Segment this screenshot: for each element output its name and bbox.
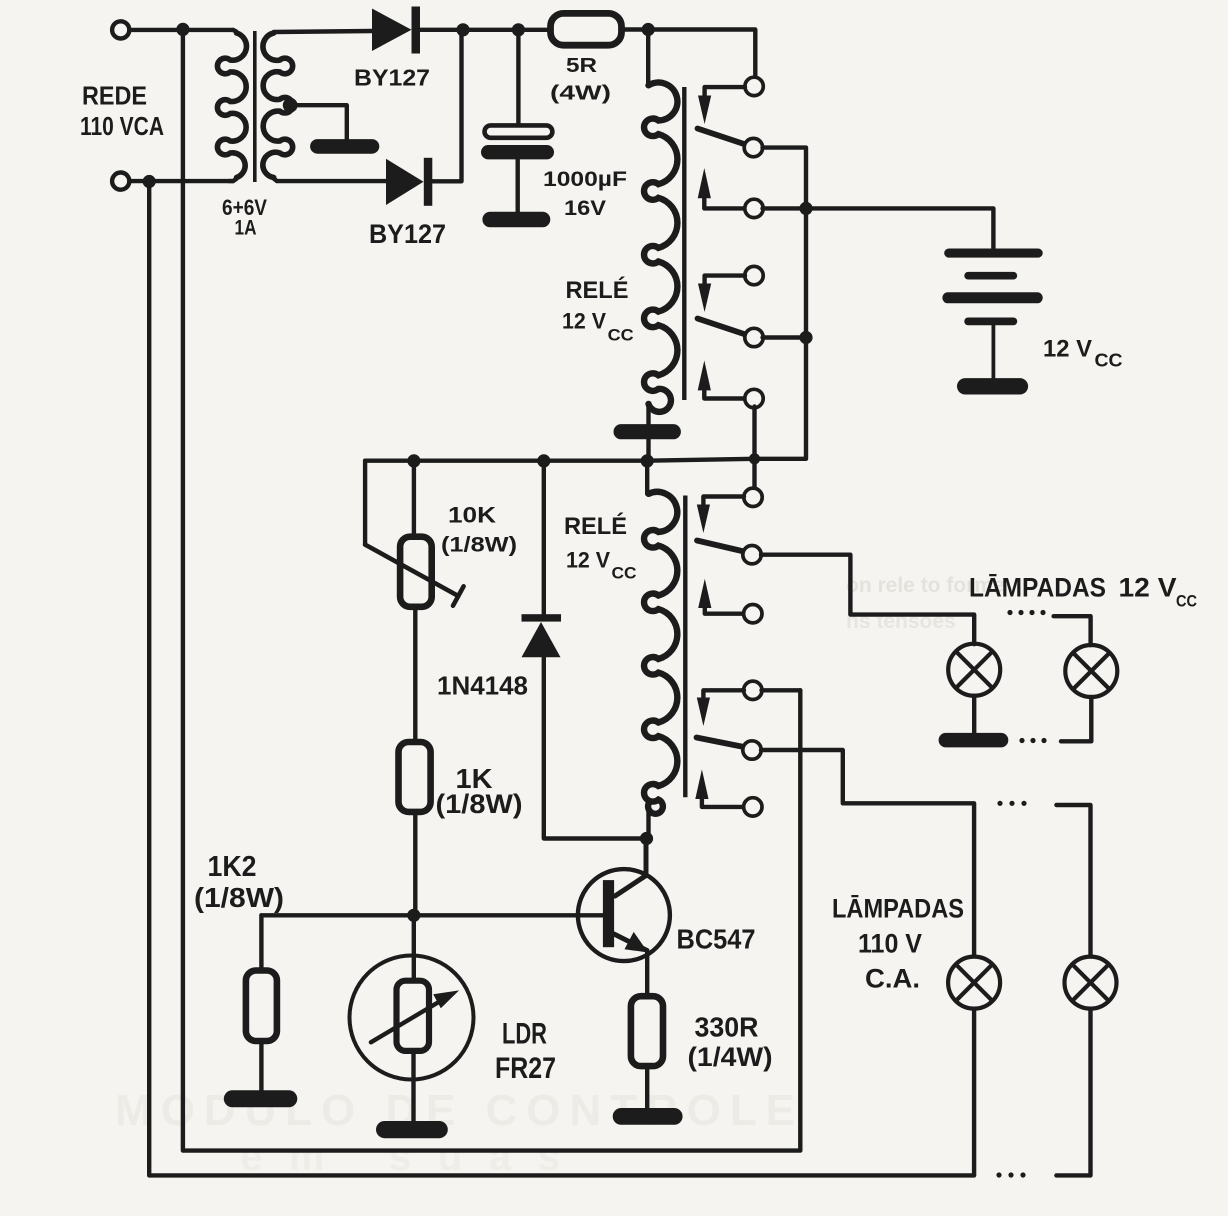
label 1K2 (208, 851, 257, 883)
node center tap (283, 98, 298, 113)
svg-text:BY127: BY127 (354, 64, 430, 90)
label 12Vcc (battery) (1043, 336, 1123, 371)
wire RL1-3 to battery node (763, 206, 807, 210)
ground (lamp L1) (939, 733, 1009, 748)
node L (collector node) (640, 832, 653, 845)
dots (110V bank top) (997, 801, 1026, 806)
trimpot 10K lead down (363, 461, 367, 545)
label 1000uF (543, 167, 627, 191)
battery B1 plate 2 (964, 272, 1017, 280)
relay RL2 coil (644, 492, 677, 814)
label 10K (448, 503, 496, 528)
contact RL1 arrow 2 (up) (698, 168, 745, 208)
wire lamp L2 stub top (1054, 616, 1091, 645)
contact arm RL2-b (697, 738, 745, 748)
resistor 5R body (551, 13, 622, 45)
wire lamp L1 to ground (972, 696, 976, 734)
wire node D down to C1 (516, 30, 520, 126)
svg-text:1000µF: 1000µF (543, 167, 627, 191)
contact arm RL2-a (697, 541, 744, 552)
svg-text:(1/8W): (1/8W) (441, 534, 517, 557)
svg-text:BY127: BY127 (369, 219, 446, 249)
LDR body (397, 981, 430, 1051)
wire node C to node D (463, 28, 518, 32)
label 12Vcc (RL2) (566, 548, 637, 583)
node G (799, 331, 812, 344)
lamp L3 (110V) (948, 957, 1000, 1009)
wire 10K to 1K (413, 607, 417, 742)
node J (diode tap) (537, 454, 550, 467)
node M (base divider) (407, 909, 420, 922)
resistor 1K body (399, 742, 431, 812)
wire bus (base feed) (365, 459, 754, 461)
contact RL1 arrow 1 (down) (698, 87, 745, 124)
wire 330R to ground (645, 1066, 649, 1109)
wire node E down to relay 1 coil (646, 30, 650, 87)
wire 1N4148 cathode lead (542, 461, 546, 615)
relay RL2 core (683, 496, 687, 798)
contact circle RL2-5 (743, 741, 761, 759)
wire input bottom to transformer (130, 179, 234, 183)
label REDE (82, 81, 147, 111)
node E (relay feed) (642, 23, 655, 36)
label 1A (235, 217, 257, 240)
wire node F to battery (806, 208, 993, 249)
transistor Q1 base bar (603, 880, 614, 947)
node F (battery tap) (799, 202, 812, 215)
wire center tap to ground (290, 105, 347, 140)
svg-text:CC: CC (1095, 351, 1123, 371)
node D (capacitor tap) (512, 23, 525, 36)
svg-text:(4W): (4W) (550, 82, 611, 105)
resistor 330R body (631, 996, 663, 1066)
wire 5R to node E (622, 27, 649, 31)
label RELE (RL1) (566, 276, 629, 304)
label 12Vcc (RL1) (562, 308, 634, 344)
transistor Q1 BC547 circle (578, 869, 670, 961)
svg-text:110 V: 110 V (858, 929, 922, 959)
svg-text:CC: CC (1176, 591, 1197, 610)
transformer T1 primary winding (217, 33, 246, 178)
wire lamp L4 stub top (1056, 805, 1090, 956)
label (1/8W) 10K (441, 534, 517, 557)
svg-text:CC: CC (608, 326, 634, 345)
ground (330R) (613, 1108, 683, 1125)
contact RL1 arrow 4 (up) (698, 361, 745, 399)
ground (relay 1 coil) (614, 424, 681, 439)
lamp L1 (12V) (948, 644, 1000, 696)
wire battery stem (992, 325, 996, 379)
svg-text:RELÉ: RELÉ (564, 512, 627, 540)
svg-text:LĀMPADAS: LĀMPADAS (832, 894, 964, 924)
wire RL1-5 to node G (763, 335, 807, 339)
wire secondary top to D1 (274, 31, 372, 32)
label 110 V (858, 929, 922, 959)
dots (110V bank bottom) (996, 1172, 1025, 1177)
lamp L4 (110V) (1065, 957, 1117, 1009)
contact circle RL1-6 (745, 389, 763, 407)
transistor Q1 emitter arrow (625, 932, 649, 953)
contact circle RL2-1 (744, 488, 762, 506)
contact circle RL1-5 (745, 328, 763, 346)
wire RL2-2 to 12V lamps (761, 555, 974, 645)
svg-text:(1/8W): (1/8W) (194, 882, 284, 913)
relay RL1 coil (644, 83, 677, 412)
lamp L2 (12V) (1065, 645, 1117, 697)
svg-text:CC: CC (612, 564, 637, 583)
svg-text:10K: 10K (448, 503, 496, 528)
svg-text:12 V: 12 V (562, 308, 606, 333)
ground (1K2) (224, 1090, 297, 1107)
wire node E to contact 1 (648, 30, 755, 78)
svg-text:12 V: 12 V (1119, 573, 1177, 603)
label 16V (564, 197, 606, 220)
battery B1 bottom bar (957, 378, 1028, 394)
svg-text:LĀMPADAS: LĀMPADAS (969, 573, 1106, 603)
label (4W) (550, 82, 611, 105)
trimpot 10K arrow (365, 545, 464, 606)
node B (bottom-left junction) (143, 175, 156, 188)
svg-text:MODULO DE CONTROLE: MODULO DE CONTROLE (115, 1086, 795, 1135)
node K (relay 2 feed) (641, 454, 654, 467)
label 330R (695, 1012, 759, 1043)
contact circle RL1-4 (745, 266, 763, 284)
wire relay 1 ground to bus (646, 439, 650, 461)
svg-text:FR27: FR27 (495, 1052, 556, 1085)
wire left rail 1 (neutral, down) (149, 182, 974, 1176)
wire D1 to node C (420, 28, 463, 32)
wire 1K to node M (413, 812, 417, 915)
contact circle RL2-6 (744, 798, 762, 816)
contact RL2 arrow 4 (up) (695, 769, 744, 807)
svg-text:REDE: REDE (82, 81, 147, 111)
wire primary bottom corner (229, 179, 236, 181)
svg-text:1N4148: 1N4148 (437, 670, 528, 700)
transistor Q1 collector lead (615, 839, 646, 897)
contact circle RL1-2 (744, 138, 762, 156)
contact RL1 arrow 3 (down) (698, 276, 745, 312)
svg-text:(1/4W): (1/4W) (688, 1042, 773, 1072)
contact RL2 arrow 2 (up) (698, 579, 744, 614)
svg-text:12 V: 12 V (566, 548, 610, 573)
contact arm RL1-a (698, 129, 746, 145)
wire relay 2 coil to collector (646, 804, 650, 839)
diode D3 1N4148 cathode bar (522, 614, 562, 621)
diode D2 BY127 (386, 158, 432, 206)
label LAMPADAS 110V (832, 894, 964, 924)
svg-text:16V: 16V (564, 197, 606, 220)
transformer T1 core (253, 31, 257, 182)
label BY127 (D1) (354, 64, 430, 90)
wire RL1-2 to right rail (763, 148, 807, 209)
wire base bus (261, 913, 603, 917)
battery B1 plate 3 (942, 292, 1042, 303)
label (1/8W) 1K2 (194, 882, 284, 913)
label 110 VCA (80, 111, 164, 141)
contact circle RL2-3 (744, 605, 762, 623)
label 1K (456, 763, 493, 794)
svg-text:RELÉ: RELÉ (566, 276, 629, 304)
label 5R (566, 54, 597, 77)
wire LDR bottom lead (411, 1051, 415, 1122)
label (1/4W) (688, 1042, 773, 1072)
contact arm RL1-b (698, 319, 746, 335)
wire left rail 2 (phase, down) (183, 29, 800, 1150)
dots (12V bank top) (1007, 610, 1045, 615)
wire lamp L4 bottom (1056, 1009, 1090, 1176)
wire secondary bottom to D2 (274, 179, 387, 182)
svg-text:12 V: 12 V (1043, 336, 1092, 363)
battery B1 plate 4 (964, 318, 1017, 326)
svg-text:5R: 5R (566, 54, 597, 77)
contact circle RL2-2 (743, 546, 761, 564)
resistor 1K2 body (246, 971, 277, 1042)
wire lamp L2 stub bottom (1061, 697, 1091, 741)
capacitor C1 bottom plate (481, 145, 554, 159)
diode D3 1N4148 triangle (522, 622, 561, 657)
wire node G to bus (755, 338, 807, 459)
wire D2 to node C (up) (432, 30, 461, 182)
label (1/8W) 1K (436, 789, 523, 819)
wire 1K2 top lead (259, 915, 263, 970)
capacitor C1 top plate (485, 125, 553, 137)
relay RL1 core (682, 87, 686, 400)
contact circle RL2-4 (744, 681, 762, 699)
resistor 10K body (400, 537, 432, 607)
svg-text:BC547: BC547 (677, 923, 756, 954)
wire RL2-4 to left rail 2 (762, 688, 801, 692)
wire node K down to relay 2 coil (645, 461, 649, 494)
ground (center tap) (310, 139, 379, 154)
svg-text:330R: 330R (695, 1012, 759, 1043)
svg-text:C.A.: C.A. (865, 964, 920, 994)
dots (12V bank bottom) (1019, 738, 1046, 743)
label BY127 (D2) (369, 219, 446, 249)
svg-text:1K2: 1K2 (208, 851, 257, 883)
contact circle RL1-3 (745, 199, 763, 217)
wire input top to transformer (130, 28, 234, 32)
contact RL2 arrow 3 (down) (697, 690, 744, 726)
label C.A. (865, 964, 920, 994)
wire LDR top lead (412, 915, 416, 983)
node I (trimpot tap) (407, 454, 420, 467)
svg-text:1A: 1A (235, 217, 257, 240)
wire RL1-6 down to RL2-1 (752, 407, 756, 490)
wire RL2-5 to 110V lamps (761, 750, 974, 956)
label RELE (RL2) (564, 512, 627, 540)
wire emitter to 330R (645, 951, 649, 997)
wire 1K2 to ground (259, 1041, 263, 1091)
contact RL2 arrow 1 (down) (697, 497, 744, 534)
label LAMPADAS 12Vcc (969, 573, 1197, 611)
LDR arrow (371, 990, 459, 1042)
diode D1 BY127 (372, 7, 420, 54)
transistor Q1 emitter lead (614, 934, 647, 951)
svg-text:110 VCA: 110 VCA (80, 111, 164, 141)
node H (bus crossing) (749, 453, 760, 464)
label BC547 (677, 923, 756, 954)
label FR27 (495, 1052, 556, 1085)
wire 10K top lead (412, 461, 416, 537)
LDR circle (350, 956, 474, 1080)
battery B1 plate 1 (944, 249, 1042, 258)
node C (rectifier output) (456, 23, 469, 36)
node A (top-left junction) (176, 23, 189, 36)
wire 1N4148 anode lead (544, 657, 647, 838)
contact circle RL1-1 (745, 77, 763, 95)
wire right rail down (804, 208, 808, 337)
input terminal (REDE 110 VCA, phase) (112, 21, 129, 38)
wire primary top corner (233, 30, 236, 32)
ground (LDR) (376, 1121, 448, 1138)
wire C1 to ground (516, 159, 520, 212)
input terminal (REDE 110 VCA, neutral) (112, 173, 129, 190)
svg-text:(1/8W): (1/8W) (436, 789, 523, 819)
wire relay 1 coil to ground bar (646, 404, 650, 425)
ground (C1) (482, 212, 550, 227)
label 1N4148 (437, 670, 528, 700)
label 6+6V (222, 195, 267, 220)
label LDR (502, 1018, 547, 1051)
wire node D to 5R (518, 28, 551, 32)
transformer T1 secondary winding (263, 33, 293, 178)
svg-text:LDR: LDR (502, 1018, 547, 1051)
